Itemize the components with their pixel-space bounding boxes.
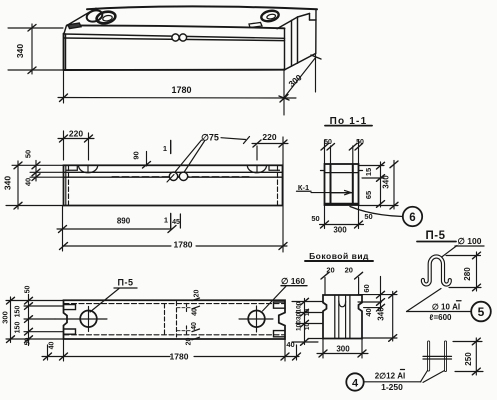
svg-text:220: 220 [69,129,83,139]
svg-text:20: 20 [345,266,353,275]
svg-text:∅ 100: ∅ 100 [458,236,482,246]
svg-text:340: 340 [382,175,391,189]
svg-text:П-5: П-5 [426,230,446,242]
svg-text:К-1: К-1 [298,183,309,192]
svg-text:П-5: П-5 [118,278,134,288]
svg-text:65: 65 [364,191,373,199]
svg-text:40: 40 [24,178,33,186]
svg-text:4: 4 [352,378,359,390]
svg-text:20: 20 [186,338,193,346]
svg-text:Боковой вид: Боковой вид [309,251,369,261]
svg-text:50: 50 [25,286,32,294]
svg-text:40: 40 [49,342,56,350]
svg-text:40: 40 [192,308,199,316]
svg-text:300: 300 [1,311,10,324]
svg-text:300: 300 [333,226,347,235]
svg-text:40: 40 [364,308,373,316]
svg-text:1: 1 [164,216,168,225]
svg-text:250: 250 [464,352,473,366]
svg-text:90: 90 [132,151,141,159]
svg-text:20: 20 [326,266,334,275]
svg-text:340: 340 [15,44,25,58]
svg-text:ℓ=600: ℓ=600 [430,313,452,322]
svg-text:50: 50 [356,139,364,146]
svg-text:60: 60 [362,284,371,292]
svg-text:6: 6 [409,212,415,224]
svg-text:50: 50 [25,338,32,346]
svg-text:1780: 1780 [174,240,193,250]
svg-text:10: 10 [304,309,311,317]
svg-text:220: 220 [262,132,276,142]
svg-text:100: 100 [295,320,302,331]
svg-text:890: 890 [117,217,131,226]
svg-text:40: 40 [191,322,198,330]
svg-text:150: 150 [15,306,22,318]
svg-text:340: 340 [3,176,13,190]
svg-text:5: 5 [478,305,485,319]
svg-text:340: 340 [377,307,386,321]
svg-text:150: 150 [15,322,22,334]
svg-text:280: 280 [463,267,472,281]
svg-text:50: 50 [324,139,332,146]
svg-text:50: 50 [24,150,33,158]
svg-text:10: 10 [304,323,311,331]
svg-text:15: 15 [364,168,373,176]
svg-text:1: 1 [163,144,167,153]
svg-text:По 1-1: По 1-1 [330,116,368,127]
svg-text:1780: 1780 [170,352,189,362]
svg-text:∅ 10 АI: ∅ 10 АI [432,303,460,312]
svg-text:50: 50 [364,212,372,221]
svg-text:∅ 160: ∅ 160 [281,276,305,286]
svg-text:40: 40 [286,340,294,349]
svg-text:100: 100 [295,301,302,312]
svg-text:300: 300 [336,345,350,354]
svg-text:∅75: ∅75 [201,133,219,143]
svg-text:1-250: 1-250 [381,382,403,392]
svg-text:45: 45 [172,219,180,226]
svg-text:50: 50 [311,214,319,223]
svg-text:1780: 1780 [171,85,191,95]
svg-text:20: 20 [194,290,201,298]
svg-text:30: 30 [295,313,302,321]
svg-text:2∅12 АI: 2∅12 АI [375,372,406,381]
